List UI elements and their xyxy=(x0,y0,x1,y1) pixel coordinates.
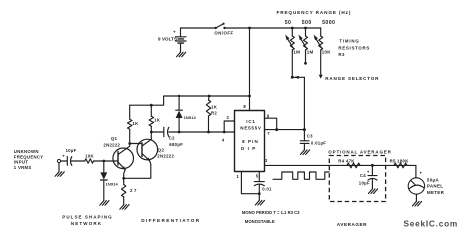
resistor 1K Q2 collector xyxy=(149,105,161,132)
pin 5 stub xyxy=(258,172,260,182)
svg-text:R5 180K: R5 180K xyxy=(390,159,410,164)
switch S1 ON/OFF xyxy=(214,23,233,36)
node diode bottom xyxy=(178,131,181,134)
svg-text:FREQUENCY RANGE (Hz): FREQUENCY RANGE (Hz) xyxy=(277,10,352,15)
capacitor C1 10uF xyxy=(62,148,85,166)
wire to ground xyxy=(258,194,260,201)
svg-text:10µF: 10µF xyxy=(359,181,370,186)
pin 6 stub xyxy=(265,118,277,129)
resistor 27 emitter xyxy=(121,178,138,204)
pin 8 stub xyxy=(249,96,251,111)
diode D1 1N914 input xyxy=(100,161,118,201)
svg-text:INPUT: INPUT xyxy=(14,160,28,165)
node input junction xyxy=(102,160,105,163)
wire supply drop xyxy=(249,28,251,96)
svg-text:FREQUENCY: FREQUENCY xyxy=(14,154,44,159)
label PULSE SHAPING NETWORK xyxy=(62,215,112,226)
svg-text:2N2222: 2N2222 xyxy=(103,143,120,148)
wire selector arm xyxy=(291,76,305,79)
resistor 10K input xyxy=(85,153,104,163)
svg-text:AVERAGER: AVERAGER xyxy=(337,222,367,227)
node pins 6-7 join xyxy=(275,128,278,131)
svg-text:Q1: Q1 xyxy=(111,136,118,141)
svg-text:IC1: IC1 xyxy=(246,119,255,124)
node pin1-5 ground junction xyxy=(258,192,261,195)
ground under D1 xyxy=(100,201,109,206)
svg-text:10µF: 10µF xyxy=(66,148,77,153)
node R2 bottom xyxy=(207,131,210,134)
node emitter junction xyxy=(122,177,125,180)
resistor R5 180K xyxy=(390,159,410,168)
svg-text:1N914: 1N914 xyxy=(106,182,119,187)
node pin2 stub junction xyxy=(223,131,226,134)
svg-text:0.01: 0.01 xyxy=(262,187,272,192)
node C4 junction xyxy=(371,164,374,167)
svg-text:C4: C4 xyxy=(360,173,366,178)
svg-text:METER: METER xyxy=(427,190,445,195)
svg-text:UNKNOWN: UNKNOWN xyxy=(14,149,39,154)
node C3 junction xyxy=(303,128,306,131)
svg-text:C3: C3 xyxy=(307,134,313,139)
wire differentiator node xyxy=(151,131,234,133)
svg-text:OPTIONAL AVERAGER: OPTIONAL AVERAGER xyxy=(328,149,391,154)
node tap 500 xyxy=(304,27,307,30)
svg-text:500: 500 xyxy=(302,20,312,26)
svg-text:1K: 1K xyxy=(211,104,218,109)
wire selector common drop xyxy=(303,77,305,129)
node V+ left rail junction xyxy=(248,95,251,98)
svg-text:R4 47K: R4 47K xyxy=(338,159,355,164)
ground under input terminal xyxy=(58,163,60,172)
svg-text:5000: 5000 xyxy=(322,20,335,26)
node tap 50 xyxy=(291,27,294,30)
ground under C4 xyxy=(368,189,377,194)
svg-text:1N914: 1N914 xyxy=(184,115,197,120)
svg-text:RESISTORS: RESISTORS xyxy=(338,45,370,50)
resistor R3b .1M variable xyxy=(298,28,313,63)
svg-text:NE555V: NE555V xyxy=(240,126,262,131)
waveform output pulses xyxy=(273,172,329,179)
ground under battery xyxy=(177,52,186,57)
svg-text:DIFFERENTIATOR: DIFFERENTIATOR xyxy=(141,218,200,223)
capacitor C5 0.01 xyxy=(254,182,272,194)
svg-text:PULSE SHAPING: PULSE SHAPING xyxy=(62,215,112,220)
svg-text:R2: R2 xyxy=(211,110,217,115)
svg-text:27: 27 xyxy=(130,188,138,193)
pin 7 stub xyxy=(265,129,305,131)
svg-text:50: 50 xyxy=(285,20,292,26)
svg-text:1M: 1M xyxy=(293,49,300,54)
node Q1 collector junction xyxy=(128,142,131,145)
capacitor C4 10uF xyxy=(359,165,377,189)
meter M1 50uA xyxy=(408,178,444,195)
wire V+ rail top xyxy=(225,27,321,29)
ground under IC xyxy=(255,200,264,205)
transistor Q1 2N2222 xyxy=(103,136,133,178)
svg-text:.1M: .1M xyxy=(305,49,313,54)
capacitor C2 680pF xyxy=(164,127,183,147)
pin 1 stub xyxy=(241,172,259,194)
svg-text:PANEL: PANEL xyxy=(427,184,443,189)
svg-text:Q2: Q2 xyxy=(158,147,165,152)
wire input xyxy=(61,160,67,162)
resistor R3a 1M variable xyxy=(285,28,300,77)
node R2 rail tap xyxy=(208,95,211,98)
resistor R2 1K xyxy=(206,96,217,132)
node contact 500 xyxy=(304,62,307,65)
svg-text:8 PIN: 8 PIN xyxy=(242,139,259,144)
svg-text:MONO PERIOD T = 1.1 R3 C3: MONO PERIOD T = 1.1 R3 C3 xyxy=(242,210,300,215)
svg-text:+: + xyxy=(62,154,65,159)
wire meter to ground xyxy=(415,194,417,201)
wire to meter xyxy=(415,165,417,177)
svg-text:TIMING: TIMING xyxy=(339,39,359,44)
svg-text:0.01µF: 0.01µF xyxy=(311,141,326,146)
input terminal xyxy=(57,159,60,162)
node V+ drop junction xyxy=(248,27,251,30)
svg-text:R3: R3 xyxy=(338,52,345,57)
capacitor C3 0.01uF xyxy=(300,130,326,150)
pin 3 output wire xyxy=(265,164,416,166)
svg-text:680pF: 680pF xyxy=(169,142,183,147)
svg-text:NETWORK: NETWORK xyxy=(71,221,102,226)
svg-text:1 VRMS: 1 VRMS xyxy=(14,165,32,170)
svg-text:RANGE SELECTOR: RANGE SELECTOR xyxy=(325,76,379,81)
resistor R4 47K xyxy=(338,159,360,168)
ground under emitter resistor xyxy=(120,205,129,210)
wire battery to switch xyxy=(181,27,216,29)
ground under C3 xyxy=(300,150,309,155)
svg-text:MONOSTABLE: MONOSTABLE xyxy=(245,219,275,224)
svg-text:10K: 10K xyxy=(85,153,94,158)
svg-text:+: + xyxy=(173,30,176,35)
svg-text:C2: C2 xyxy=(169,135,175,140)
svg-text:DIP: DIP xyxy=(241,146,259,151)
wire left V+ rail xyxy=(130,96,250,105)
label UNKNOWN FREQUENCY INPUT 1 VRMS xyxy=(14,149,44,170)
transistor Q2 2N2222 xyxy=(124,132,175,178)
node contact 5000 xyxy=(319,75,323,79)
svg-text:9 VOLTS: 9 VOLTS xyxy=(158,37,177,42)
svg-text:+: + xyxy=(367,170,370,175)
svg-text:1K: 1K xyxy=(132,121,139,126)
svg-text:50µA: 50µA xyxy=(427,178,439,183)
label TIMING RESISTORS R3 xyxy=(338,39,370,57)
ground under meter xyxy=(412,201,421,206)
resistor R3c 10K variable xyxy=(314,28,332,75)
node Q2 collector junction xyxy=(150,131,153,134)
node diode rail tap xyxy=(178,95,180,97)
svg-text:+: + xyxy=(420,171,423,176)
resistor 1K Q1 collector xyxy=(127,105,139,143)
svg-text:ON/OFF: ON/OFF xyxy=(214,31,233,36)
wire to pin 2 xyxy=(224,121,234,132)
IC1 NE555V box xyxy=(235,111,265,172)
svg-text:SeekIC.com: SeekIC.com xyxy=(404,219,459,229)
node Q2 1K rail tap xyxy=(150,104,153,107)
svg-text:10K: 10K xyxy=(322,49,332,54)
battery B1 9 VOLTS xyxy=(158,28,186,52)
averager dashed box xyxy=(329,156,385,202)
svg-text:1K: 1K xyxy=(154,118,161,123)
diode D2 1N914 xyxy=(176,96,197,132)
svg-text:2N2222: 2N2222 xyxy=(157,153,174,158)
